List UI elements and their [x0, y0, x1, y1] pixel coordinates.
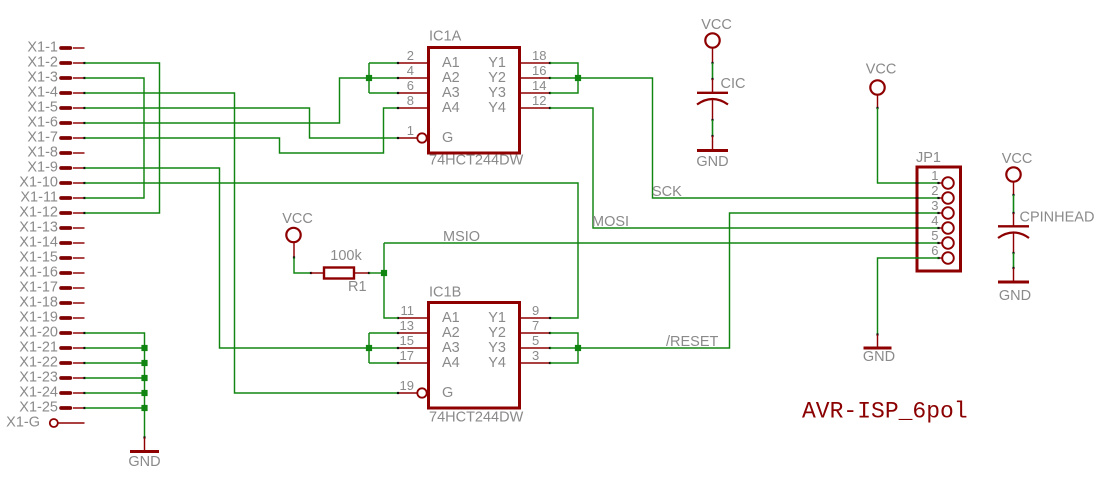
svg-text:X1-20: X1-20: [19, 325, 58, 341]
svg-text:2: 2: [931, 183, 938, 198]
IC1B pin 7 (Y2): [488, 318, 551, 341]
IC1A pin 6 (A3): [397, 78, 460, 101]
svg-text:5: 5: [931, 228, 938, 243]
svg-text:X1-24: X1-24: [19, 385, 58, 401]
ground symbol GND (below JP1): [863, 333, 895, 365]
connector pin X1-10: [19, 175, 85, 191]
svg-text:GND: GND: [128, 454, 160, 470]
svg-text:A1: A1: [442, 55, 460, 71]
wire IC1A Y1-Y3 tie vertical: [550, 63, 578, 93]
wire net X1-2 to X1-12: [85, 63, 160, 213]
IC1B pin 9 (Y1): [488, 303, 551, 326]
connector pin X1-1: [27, 40, 84, 56]
wire X1-24 to ground bus: [85, 392, 145, 394]
connector pin X1-8: [27, 145, 84, 161]
svg-text:AVR-ISP_6pol: AVR-ISP_6pol: [802, 399, 968, 425]
IC1B pin 3 (Y4): [488, 348, 551, 371]
svg-text:X1-11: X1-11: [20, 190, 58, 206]
svg-text:X1-18: X1-18: [19, 295, 58, 311]
svg-text:X1-10: X1-10: [19, 175, 58, 191]
svg-text:A1: A1: [442, 310, 460, 326]
svg-text:CIC: CIC: [721, 76, 746, 92]
svg-text:X1-21: X1-21: [19, 340, 58, 356]
svg-text:7: 7: [532, 318, 539, 333]
svg-text:74HCT244DW: 74HCT244DW: [429, 410, 524, 426]
wire X1-25 to ground bus: [85, 407, 145, 409]
svg-text:X1-7: X1-7: [27, 130, 58, 146]
svg-text:16: 16: [532, 63, 546, 78]
IC1A pin 14 (Y3): [488, 78, 551, 101]
connector pin X1-7: [27, 130, 85, 146]
svg-text:12: 12: [532, 93, 546, 108]
svg-text:X1-G: X1-G: [6, 415, 40, 431]
JP1 pin 1: [931, 168, 954, 189]
svg-text:18: 18: [532, 48, 546, 63]
wire net X1-6 to IC1A inputs A1-A3: [85, 78, 398, 123]
svg-text:/RESET: /RESET: [666, 334, 719, 350]
svg-text:X1-16: X1-16: [19, 265, 58, 281]
svg-text:VCC: VCC: [866, 62, 897, 78]
svg-text:GND: GND: [999, 288, 1031, 304]
svg-text:VCC: VCC: [701, 17, 732, 33]
svg-text:13: 13: [400, 318, 414, 333]
wire VCC to CIC: [711, 48, 713, 92]
svg-text:Y3: Y3: [488, 85, 506, 101]
svg-text:A4: A4: [442, 355, 460, 371]
wire IC1A Y2 stub: [550, 77, 578, 79]
connector pin X1-19: [19, 310, 84, 326]
svg-text:X1-4: X1-4: [27, 85, 58, 101]
IC1A pin 8 (A4): [397, 93, 460, 116]
wire net MSIO vertical to IC1B pin 11: [384, 243, 398, 318]
junction on IC1A A2: [366, 75, 372, 81]
wire X1-22 to ground bus: [85, 362, 145, 364]
svg-text:SCK: SCK: [652, 184, 682, 200]
connector pin X1-20: [19, 325, 85, 341]
connector pin X1-21: [19, 340, 85, 356]
buffer IC1A 74HCT244DW box: [429, 48, 520, 154]
svg-text:A2: A2: [442, 70, 460, 86]
JP1 pin 5: [931, 228, 954, 249]
wire net SCK from IC1A outputs to JP1 pin 2: [578, 78, 939, 198]
svg-text:JP1: JP1: [916, 150, 941, 166]
wire VCC to R1: [293, 243, 311, 274]
wire IC1A A1 stub: [369, 62, 398, 64]
wire JP1 pin 6 to GND: [878, 258, 939, 335]
svg-text:Y2: Y2: [488, 325, 506, 341]
svg-text:Y4: Y4: [488, 355, 506, 371]
svg-text:G: G: [442, 130, 453, 146]
connector pin X1-G: [6, 415, 84, 431]
svg-text:X1-3: X1-3: [27, 70, 58, 86]
svg-text:Y4: Y4: [488, 100, 506, 116]
junction ground bus at X1-21: [141, 345, 147, 351]
wire VCC to CPINHEAD: [1012, 182, 1014, 226]
power symbol VCC (above JP1): [866, 62, 897, 95]
connector pin X1-14: [19, 235, 84, 251]
connector pin X1-2: [27, 55, 85, 71]
svg-text:X1-15: X1-15: [19, 250, 58, 266]
connector pin X1-23: [19, 370, 85, 386]
JP1 pin 6: [931, 243, 954, 264]
junction on IC1B Y3: [575, 345, 581, 351]
connector pin X1-15: [19, 250, 84, 266]
svg-text:X1-9: X1-9: [27, 160, 58, 176]
svg-text:X1-22: X1-22: [19, 355, 58, 371]
connector pin X1-24: [19, 385, 85, 401]
capacitor CPINHEAD: [998, 210, 1094, 239]
wire X1-23 to ground bus: [85, 377, 145, 379]
svg-text:IC1A: IC1A: [429, 29, 462, 45]
svg-text:6: 6: [407, 78, 414, 93]
svg-text:R1: R1: [348, 279, 367, 295]
IC1B pin 19 (G, inverted enable): [397, 378, 453, 401]
svg-text:X1-23: X1-23: [19, 370, 58, 386]
svg-text:A2: A2: [442, 325, 460, 341]
wire VCC to JP1 pin 1: [876, 95, 938, 183]
svg-text:CPINHEAD: CPINHEAD: [1020, 210, 1095, 226]
svg-text:X1-1: X1-1: [27, 40, 58, 56]
connector pin X1-6: [27, 115, 85, 131]
svg-text:X1-17: X1-17: [19, 280, 58, 296]
ground symbol GND (below CPINHEAD): [998, 282, 1031, 304]
wire net X1-5 to IC1A pin 1 (G): [85, 108, 398, 138]
capacitor CIC: [697, 76, 745, 105]
svg-text:15: 15: [400, 333, 414, 348]
wire CIC to GND: [711, 100, 713, 150]
junction ground bus at X1-24: [141, 390, 147, 396]
ground symbol GND (bottom left): [128, 436, 160, 470]
svg-text:X1-6: X1-6: [27, 115, 58, 131]
svg-text:74HCT244DW: 74HCT244DW: [429, 153, 524, 169]
wire net /RESET from IC1B outputs to JP1 pin 3: [578, 213, 939, 348]
svg-text:MSIO: MSIO: [443, 229, 480, 245]
svg-text:X1-5: X1-5: [27, 100, 58, 116]
IC1A pin 16 (Y2): [488, 63, 551, 86]
svg-text:11: 11: [401, 303, 415, 318]
wire IC1B A3 stub: [369, 347, 398, 349]
wire IC1B A2 stub: [369, 332, 398, 334]
IC1B pin 17 (A4): [397, 348, 460, 371]
connector pin X1-25: [19, 400, 85, 416]
svg-text:X1-14: X1-14: [19, 235, 58, 251]
svg-text:19: 19: [400, 378, 414, 393]
junction on IC1B A3: [366, 345, 372, 351]
IC1B pin 5 (Y3): [488, 333, 551, 356]
connector pin X1-12: [19, 205, 85, 221]
svg-text:GND: GND: [696, 154, 728, 170]
svg-text:X1-25: X1-25: [19, 400, 58, 416]
connector pin X1-4: [27, 85, 85, 101]
JP1 pin 4: [931, 213, 954, 234]
svg-text:VCC: VCC: [282, 211, 313, 227]
svg-text:A4: A4: [442, 100, 460, 116]
svg-text:4: 4: [407, 63, 414, 78]
connector pin X1-18: [19, 295, 84, 311]
connector pin X1-13: [19, 220, 84, 236]
JP1 pin 3: [931, 198, 954, 219]
wire IC1B A4 stub: [369, 362, 398, 364]
wire net MSIO to JP1 pin 5: [384, 242, 939, 244]
svg-text:100k: 100k: [330, 248, 362, 264]
svg-text:A3: A3: [442, 340, 460, 356]
junction ground bus at X1-23: [141, 375, 147, 381]
wire net X1-9 to IC1B inputs A2-A4: [85, 168, 369, 348]
wire R1 to MSIO junction: [369, 272, 384, 274]
wire IC1A A1-A3 tie vertical: [368, 63, 370, 93]
svg-text:Y1: Y1: [488, 310, 506, 326]
junction ground bus at X1-25: [141, 405, 147, 411]
svg-text:Y2: Y2: [488, 70, 506, 86]
svg-text:X1-8: X1-8: [27, 145, 58, 161]
svg-text:MOSI: MOSI: [592, 214, 629, 230]
wire IC1B A2-A4 tie vertical: [368, 333, 370, 363]
svg-text:2: 2: [407, 48, 414, 63]
wire IC1B Y2-Y4 tie vertical: [550, 333, 578, 363]
IC1A pin 2 (A1): [397, 48, 460, 71]
buffer IC1B 74HCT244DW box: [429, 303, 520, 409]
svg-text:8: 8: [407, 93, 414, 108]
svg-text:1: 1: [407, 123, 414, 138]
svg-text:4: 4: [931, 213, 938, 228]
svg-text:A3: A3: [442, 85, 460, 101]
svg-text:5: 5: [532, 333, 539, 348]
svg-text:X1-19: X1-19: [19, 310, 58, 326]
connector pin X1-17: [19, 280, 84, 296]
wire net X1-20..X1-25 ground bus: [85, 333, 145, 438]
connector pin X1-3: [27, 70, 85, 86]
svg-text:6: 6: [931, 243, 938, 258]
IC1A pin 1 (G, inverted enable): [397, 123, 453, 146]
svg-text:1: 1: [931, 168, 938, 183]
wire X1-21 to ground bus: [85, 347, 145, 349]
wire CPINHEAD to GND: [1012, 234, 1014, 282]
svg-text:X1-12: X1-12: [19, 205, 58, 221]
connector pin X1-22: [19, 355, 85, 371]
JP1 pin 2: [931, 183, 954, 204]
wire net X1-4 to IC1B pin 19 (G): [85, 93, 398, 393]
svg-text:VCC: VCC: [1002, 151, 1033, 167]
IC1B pin 15 (A3): [397, 333, 460, 356]
svg-text:X1-2: X1-2: [27, 55, 58, 71]
svg-text:X1-13: X1-13: [19, 220, 58, 236]
resistor R1 100k: [310, 248, 370, 295]
wire net X1-7 to IC1A input A4: [85, 108, 398, 153]
IC1A pin 4 (A2): [397, 63, 460, 86]
svg-text:14: 14: [532, 78, 546, 93]
power symbol VCC (near R1): [282, 211, 313, 242]
ground symbol GND (below CIC): [696, 151, 728, 171]
svg-text:Y1: Y1: [488, 55, 506, 71]
svg-text:17: 17: [400, 348, 414, 363]
svg-text:IC1B: IC1B: [429, 285, 461, 301]
IC1A pin 18 (Y1): [488, 48, 551, 71]
IC1B pin 11 (A1): [397, 303, 460, 326]
wire IC1B Y3 stub: [550, 347, 578, 349]
wire net MOSI from IC1A Y4 to JP1 pin 4: [550, 108, 939, 228]
IC1B pin 13 (A2): [397, 318, 460, 341]
connector pin X1-5: [27, 100, 85, 116]
wire IC1A A3 stub: [369, 92, 398, 94]
power symbol VCC (above CIC): [701, 17, 732, 48]
connector pin X1-11: [20, 190, 85, 206]
pin header JP1 box: [917, 167, 961, 271]
svg-text:Y3: Y3: [488, 340, 506, 356]
svg-text:G: G: [442, 385, 453, 401]
wire net X1-10 to IC1B output Y1: [85, 183, 578, 318]
svg-text:3: 3: [931, 198, 938, 213]
wire-over-border marks JP1: [915, 182, 918, 259]
svg-text:GND: GND: [863, 349, 895, 365]
junction on IC1A Y2: [575, 75, 581, 81]
power symbol VCC (above CPINHEAD): [1002, 151, 1033, 182]
wire net X1-3 to X1-11: [85, 78, 144, 198]
junction MSIO at R1: [381, 270, 387, 276]
svg-text:3: 3: [532, 348, 539, 363]
junction ground bus at X1-22: [141, 360, 147, 366]
IC1A pin 12 (Y4): [488, 93, 551, 116]
connector pin X1-16: [19, 265, 84, 281]
svg-text:9: 9: [532, 303, 539, 318]
connector pin X1-9: [27, 160, 85, 176]
